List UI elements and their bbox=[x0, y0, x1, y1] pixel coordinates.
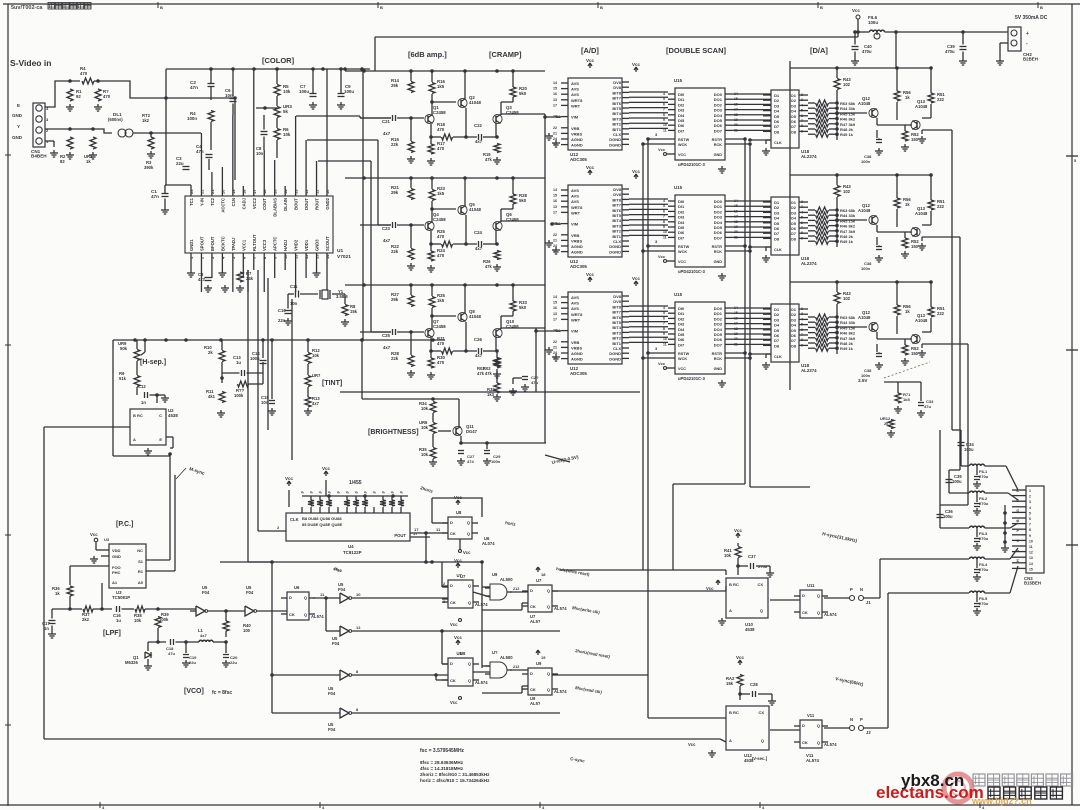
svg-text:18: 18 bbox=[541, 572, 546, 577]
svg-text:10: 10 bbox=[356, 592, 361, 597]
svg-text:WRT8: WRT8 bbox=[571, 312, 583, 317]
svg-text:TC1: TC1 bbox=[189, 197, 194, 206]
svg-text:AGND: AGND bbox=[571, 244, 583, 249]
svg-text:4x7: 4x7 bbox=[383, 238, 391, 243]
svg-text:4538: 4538 bbox=[168, 413, 178, 418]
svg-text:6: 6 bbox=[801, 328, 803, 332]
svg-text:A1048: A1048 bbox=[858, 101, 871, 106]
svg-text:Vcc: Vcc bbox=[463, 550, 471, 555]
svg-text:390k: 390k bbox=[144, 165, 154, 170]
svg-text:Q: Q bbox=[467, 520, 470, 525]
svg-text:E: E bbox=[17, 103, 20, 108]
svg-text:4: 4 bbox=[801, 317, 803, 321]
svg-text:470: 470 bbox=[437, 253, 445, 258]
svg-text:S-Video in: S-Video in bbox=[10, 58, 51, 68]
svg-text:Vcc: Vcc bbox=[322, 466, 331, 471]
svg-text:C2458: C2458 bbox=[433, 110, 446, 115]
svg-text:AVS: AVS bbox=[571, 199, 579, 204]
svg-text:8: 8 bbox=[663, 220, 665, 224]
svg-text:AL074: AL074 bbox=[482, 541, 495, 546]
svg-text:Vcc: Vcc bbox=[658, 254, 666, 259]
svg-text:C10: C10 bbox=[278, 308, 286, 313]
svg-text:C23: C23 bbox=[382, 226, 390, 231]
svg-text:Vcc: Vcc bbox=[688, 742, 696, 747]
svg-text:[CRAMP]: [CRAMP] bbox=[489, 50, 522, 59]
svg-text:5: 5 bbox=[663, 204, 665, 208]
svg-text:RSTR: RSTR bbox=[712, 352, 723, 356]
svg-text:2: 2 bbox=[443, 582, 445, 586]
svg-text:U6: U6 bbox=[294, 585, 300, 590]
svg-text:23: 23 bbox=[189, 189, 194, 194]
svg-text:A: A bbox=[729, 608, 732, 613]
svg-text:5: 5 bbox=[801, 323, 803, 327]
svg-text:Q: Q bbox=[761, 738, 764, 743]
svg-text:11: 11 bbox=[663, 235, 667, 239]
svg-text:WRT8: WRT8 bbox=[571, 98, 583, 103]
svg-text:U1: U1 bbox=[337, 248, 343, 254]
svg-text:22: 22 bbox=[553, 340, 557, 344]
svg-text:15: 15 bbox=[273, 189, 278, 194]
svg-text:41048: 41048 bbox=[469, 100, 482, 105]
svg-text:4: 4 bbox=[801, 210, 803, 214]
svg-text:Q: Q bbox=[468, 678, 471, 683]
svg-text:VIM: VIM bbox=[571, 329, 579, 334]
svg-text:CX: CX bbox=[757, 582, 763, 587]
svg-text:222: 222 bbox=[937, 204, 945, 209]
svg-text:D8: D8 bbox=[774, 236, 780, 241]
svg-text:RSTW: RSTW bbox=[678, 352, 690, 356]
svg-text:C25: C25 bbox=[382, 333, 390, 338]
svg-text:[BRIGHTNESS]: [BRIGHTNESS] bbox=[368, 429, 419, 436]
svg-text:5: 5 bbox=[663, 97, 665, 101]
svg-text:22: 22 bbox=[553, 126, 557, 130]
svg-text:D: D bbox=[530, 588, 533, 593]
svg-text:222: 222 bbox=[937, 311, 945, 316]
svg-text:U4: U4 bbox=[348, 544, 354, 549]
svg-text:17: 17 bbox=[414, 527, 419, 532]
svg-text:WCK: WCK bbox=[678, 143, 687, 147]
svg-text:9: 9 bbox=[801, 236, 803, 240]
svg-text:5V 350mA DC: 5V 350mA DC bbox=[1015, 15, 1048, 21]
svg-text:Vcc: Vcc bbox=[632, 169, 641, 174]
svg-text:S1: S1 bbox=[138, 559, 144, 564]
svg-text:Vcc: Vcc bbox=[90, 532, 98, 537]
svg-text:9: 9 bbox=[1029, 534, 1031, 538]
svg-text:A: A bbox=[729, 738, 732, 743]
svg-text:AL574: AL574 bbox=[806, 758, 820, 763]
svg-text:A: A bbox=[133, 437, 136, 442]
svg-text:82: 82 bbox=[60, 159, 65, 164]
svg-text:Vcc: Vcc bbox=[586, 272, 595, 277]
svg-text:10k: 10k bbox=[421, 425, 429, 430]
svg-text:15: 15 bbox=[1029, 567, 1033, 571]
svg-text:CK: CK bbox=[802, 740, 808, 745]
svg-text:J1: J1 bbox=[866, 600, 871, 605]
svg-text:270u: 270u bbox=[979, 474, 989, 479]
svg-text:10: 10 bbox=[663, 230, 667, 234]
svg-text:10: 10 bbox=[325, 189, 330, 194]
svg-text:1k: 1k bbox=[86, 159, 91, 164]
svg-text:4: 4 bbox=[663, 92, 665, 96]
svg-text:U8: U8 bbox=[456, 510, 462, 515]
svg-text:10: 10 bbox=[663, 123, 667, 127]
svg-text:RSTW: RSTW bbox=[678, 245, 690, 249]
svg-text:85 DU8E QU8E QU8E: 85 DU8E QU8E QU8E bbox=[302, 522, 343, 527]
svg-text:4k1: 4k1 bbox=[208, 394, 216, 399]
svg-text:ROUT: ROUT bbox=[315, 198, 320, 210]
svg-text:VRBS: VRBS bbox=[571, 345, 582, 350]
svg-text:4: 4 bbox=[663, 306, 665, 310]
svg-text:WRT8: WRT8 bbox=[571, 205, 583, 210]
svg-text:R49 1k: R49 1k bbox=[840, 239, 854, 244]
svg-text:41048: 41048 bbox=[469, 314, 482, 319]
svg-text:www.bjdz?.cn: www.bjdz?.cn bbox=[971, 796, 1032, 806]
svg-text:4x7: 4x7 bbox=[198, 277, 206, 282]
svg-text:5: 5 bbox=[801, 216, 803, 220]
svg-text:222: 222 bbox=[937, 97, 945, 102]
svg-text:A1048: A1048 bbox=[915, 104, 928, 109]
svg-text:R49 1k: R49 1k bbox=[840, 346, 854, 351]
svg-text:DO7: DO7 bbox=[714, 342, 723, 347]
svg-text:14: 14 bbox=[553, 188, 557, 192]
svg-text:Vcc: Vcc bbox=[450, 622, 458, 627]
svg-text:BFOUT: BFOUT bbox=[210, 236, 215, 251]
svg-text:5uv/T002-ca: 5uv/T002-ca bbox=[11, 5, 43, 11]
svg-text:2: 2 bbox=[1029, 495, 1031, 499]
svg-text:3.5V: 3.5V bbox=[858, 378, 868, 383]
svg-text:17: 17 bbox=[553, 103, 557, 107]
svg-text:2k: 2k bbox=[884, 421, 889, 426]
svg-text:electans.com: electans.com bbox=[876, 783, 984, 802]
svg-text:GND: GND bbox=[12, 113, 23, 118]
svg-text:1k5: 1k5 bbox=[437, 298, 445, 303]
svg-text:RSTR: RSTR bbox=[712, 138, 723, 142]
svg-text:Q: Q bbox=[304, 595, 307, 600]
svg-text:Vcc: Vcc bbox=[706, 586, 714, 591]
svg-text:10n: 10n bbox=[225, 93, 233, 98]
svg-text:270u: 270u bbox=[979, 567, 989, 572]
svg-text:AVS: AVS bbox=[571, 295, 579, 300]
svg-text:B: B bbox=[600, 5, 603, 10]
svg-text:150: 150 bbox=[911, 244, 919, 249]
svg-text:47u: 47u bbox=[924, 404, 931, 409]
svg-text:DG47: DG47 bbox=[466, 429, 478, 434]
svg-text:AVS: AVS bbox=[571, 87, 579, 92]
svg-text:100n: 100n bbox=[861, 159, 871, 164]
svg-text:U9: U9 bbox=[536, 661, 542, 666]
svg-text:5: 5 bbox=[1029, 511, 1031, 515]
svg-text:AL2374: AL2374 bbox=[801, 261, 817, 266]
svg-text:10k: 10k bbox=[283, 89, 291, 94]
svg-text:R1: R1 bbox=[138, 569, 144, 574]
svg-text:470: 470 bbox=[437, 127, 445, 132]
svg-text:474: 474 bbox=[467, 459, 474, 464]
svg-text:5: 5 bbox=[801, 109, 803, 113]
svg-text:Vcc: Vcc bbox=[285, 476, 294, 481]
svg-text:10k: 10k bbox=[312, 353, 320, 358]
svg-text:15k: 15k bbox=[350, 309, 358, 314]
svg-text:8: 8 bbox=[663, 327, 665, 331]
svg-text:GND3: GND3 bbox=[315, 239, 320, 251]
svg-text:DO7: DO7 bbox=[714, 128, 723, 133]
svg-text:16: 16 bbox=[553, 92, 557, 96]
svg-text:AL574: AL574 bbox=[554, 606, 567, 611]
svg-text:7: 7 bbox=[801, 226, 803, 230]
svg-text:(600ns): (600ns) bbox=[108, 117, 123, 122]
svg-text:U15: U15 bbox=[674, 78, 683, 83]
svg-text:1k: 1k bbox=[905, 309, 910, 314]
svg-text:10n: 10n bbox=[256, 151, 264, 156]
svg-text:8: 8 bbox=[663, 113, 665, 117]
svg-text:Q: Q bbox=[547, 671, 550, 676]
svg-text:A1048: A1048 bbox=[915, 211, 928, 216]
svg-text:RCK: RCK bbox=[714, 143, 722, 147]
svg-text:100k: 100k bbox=[234, 393, 244, 398]
svg-text:O: O bbox=[1016, 499, 1020, 502]
svg-text:4: 4 bbox=[1029, 506, 1031, 510]
svg-text:14: 14 bbox=[325, 254, 330, 259]
svg-text:Vcc: Vcc bbox=[632, 276, 641, 281]
svg-text:TPADJ: TPADJ bbox=[231, 237, 236, 251]
svg-text:11: 11 bbox=[1029, 545, 1033, 549]
svg-text:100u: 100u bbox=[952, 479, 962, 484]
svg-text:B8 DU88 QU88 GU88: B8 DU88 QU88 GU88 bbox=[302, 516, 342, 521]
svg-text:O8: O8 bbox=[791, 236, 797, 241]
svg-text:10: 10 bbox=[1029, 539, 1033, 543]
svg-text:4: 4 bbox=[663, 199, 665, 203]
svg-text:6: 6 bbox=[801, 114, 803, 118]
svg-text:A1048: A1048 bbox=[915, 318, 928, 323]
svg-text:4x7: 4x7 bbox=[200, 633, 207, 638]
svg-text:B4BEH: B4BEH bbox=[31, 154, 47, 159]
svg-text:A1048: A1048 bbox=[858, 208, 871, 213]
svg-text:50k: 50k bbox=[120, 346, 128, 351]
svg-text:U15: U15 bbox=[674, 185, 683, 190]
svg-text:24k: 24k bbox=[246, 276, 254, 281]
svg-text:CK: CK bbox=[450, 600, 456, 605]
svg-text:TC2: TC2 bbox=[210, 197, 215, 206]
svg-text:C26: C26 bbox=[474, 337, 482, 342]
svg-text:5k0: 5k0 bbox=[519, 198, 527, 203]
svg-text:Q: Q bbox=[304, 612, 307, 617]
svg-text:B: B bbox=[820, 5, 823, 10]
svg-text:VRBS: VRBS bbox=[571, 238, 582, 243]
svg-text:13: 13 bbox=[315, 254, 320, 259]
svg-text:VDD1: VDD1 bbox=[304, 239, 309, 251]
svg-text:Q: Q bbox=[467, 531, 470, 536]
svg-text:10k: 10k bbox=[283, 132, 291, 137]
svg-text:AVS: AVS bbox=[571, 194, 579, 199]
svg-text:150: 150 bbox=[911, 351, 919, 356]
svg-text:VIM: VIM bbox=[571, 222, 579, 227]
svg-text:10k: 10k bbox=[724, 553, 732, 558]
svg-text:9: 9 bbox=[663, 118, 665, 122]
svg-text:AVS: AVS bbox=[571, 188, 579, 193]
svg-text:21: 21 bbox=[553, 345, 557, 349]
svg-text:VRB: VRB bbox=[571, 126, 580, 131]
svg-text:10k: 10k bbox=[421, 406, 429, 411]
svg-text:29k: 29k bbox=[391, 297, 399, 302]
svg-text:212: 212 bbox=[513, 587, 519, 591]
svg-text:WRT: WRT bbox=[571, 210, 581, 215]
svg-text:1k: 1k bbox=[905, 202, 910, 207]
svg-text:D: D bbox=[450, 661, 453, 666]
svg-text:14: 14 bbox=[553, 81, 557, 85]
svg-text:1k5: 1k5 bbox=[903, 397, 910, 402]
svg-text:16: 16 bbox=[262, 189, 267, 194]
svg-text:12: 12 bbox=[1029, 551, 1033, 555]
svg-text:F04: F04 bbox=[338, 587, 346, 592]
svg-text:47n: 47n bbox=[196, 149, 204, 154]
svg-text:P: P bbox=[860, 717, 863, 722]
svg-text:1k5: 1k5 bbox=[437, 84, 445, 89]
svg-text:2k2: 2k2 bbox=[82, 617, 90, 622]
svg-text:Q: Q bbox=[468, 600, 471, 605]
svg-text:5k: 5k bbox=[283, 109, 288, 114]
svg-text:22u: 22u bbox=[230, 660, 237, 665]
svg-text:17: 17 bbox=[553, 317, 557, 321]
svg-text:18: 18 bbox=[241, 189, 246, 194]
svg-text:+: + bbox=[1026, 31, 1029, 37]
svg-text:17: 17 bbox=[553, 210, 557, 214]
svg-text:U?: U? bbox=[492, 650, 498, 655]
svg-text:7: 7 bbox=[1029, 523, 1031, 527]
svg-text:47n: 47n bbox=[151, 194, 159, 199]
svg-text:Vcc: Vcc bbox=[736, 655, 745, 660]
svg-text:AGND: AGND bbox=[571, 357, 583, 362]
svg-text:Q: Q bbox=[547, 604, 550, 609]
svg-text:AL574: AL574 bbox=[824, 612, 837, 617]
svg-text:C: C bbox=[159, 413, 162, 418]
svg-text:B: B bbox=[380, 5, 383, 10]
svg-text:C12: C12 bbox=[138, 384, 146, 389]
svg-text:[A/D]: [A/D] bbox=[581, 46, 599, 55]
svg-text:A1: A1 bbox=[112, 580, 118, 585]
svg-text:1u: 1u bbox=[236, 360, 241, 365]
svg-text:13: 13 bbox=[553, 98, 557, 102]
svg-text:VRB: VRB bbox=[571, 340, 580, 345]
svg-text:SPOUT: SPOUT bbox=[199, 236, 204, 251]
svg-text:22k: 22k bbox=[391, 142, 399, 147]
svg-text:4x7: 4x7 bbox=[312, 401, 320, 406]
svg-text:2horiz = 8fsc/910 = 31.46853kH: 2horiz = 8fsc/910 = 31.46853kHz bbox=[420, 772, 490, 777]
svg-text:GND: GND bbox=[714, 153, 723, 157]
svg-text:10n: 10n bbox=[290, 301, 298, 306]
svg-text:Vcc: Vcc bbox=[658, 361, 666, 366]
svg-text:CADJ: CADJ bbox=[241, 197, 246, 209]
svg-text:4x7: 4x7 bbox=[383, 345, 391, 350]
svg-text:VCC1: VCC1 bbox=[241, 239, 246, 251]
svg-text:D8: D8 bbox=[774, 129, 780, 134]
svg-text:12: 12 bbox=[356, 625, 361, 630]
svg-text:CLK: CLK bbox=[774, 355, 782, 359]
svg-text:U11: U11 bbox=[807, 583, 815, 588]
svg-text:13: 13 bbox=[553, 205, 557, 209]
svg-text:17: 17 bbox=[252, 189, 257, 194]
svg-text:GND: GND bbox=[714, 260, 723, 264]
svg-text:7: 7 bbox=[663, 215, 665, 219]
svg-text:41048: 41048 bbox=[469, 207, 482, 212]
svg-text:8: 8 bbox=[801, 338, 803, 342]
svg-text:1k3: 1k3 bbox=[487, 392, 495, 397]
svg-text:VCC2: VCC2 bbox=[252, 197, 257, 209]
svg-text:13: 13 bbox=[294, 189, 299, 194]
svg-text:J2: J2 bbox=[866, 730, 871, 735]
svg-text:470: 470 bbox=[437, 234, 445, 239]
svg-text:Q: Q bbox=[547, 687, 550, 692]
svg-text:22k: 22k bbox=[391, 249, 399, 254]
svg-text:VCC: VCC bbox=[678, 260, 686, 264]
svg-text:10k: 10k bbox=[421, 452, 429, 457]
svg-text:horiz = 4fsc/910 = 15.734264kH: horiz = 4fsc/910 = 15.734264kHz bbox=[420, 778, 490, 783]
svg-text:U7: U7 bbox=[457, 573, 463, 578]
svg-text:[D/A]: [D/A] bbox=[810, 46, 828, 55]
svg-text:5k0: 5k0 bbox=[519, 305, 527, 310]
svg-text:29k: 29k bbox=[391, 190, 399, 195]
svg-text:B: B bbox=[1016, 519, 1020, 522]
svg-text:5: 5 bbox=[663, 311, 665, 315]
svg-text:AL5?: AL5? bbox=[530, 701, 541, 706]
svg-text:GND: GND bbox=[714, 367, 723, 371]
svg-text:Vcc: Vcc bbox=[454, 635, 463, 640]
svg-text:Q: Q bbox=[817, 723, 820, 728]
svg-text:C21: C21 bbox=[382, 119, 390, 124]
svg-text:51k: 51k bbox=[119, 376, 127, 381]
svg-text:9: 9 bbox=[801, 129, 803, 133]
svg-text:Vcc: Vcc bbox=[734, 528, 743, 533]
svg-text:4fsc = 14.31818MHz: 4fsc = 14.31818MHz bbox=[420, 766, 464, 771]
svg-text:IV-sec.]: IV-sec.] bbox=[752, 756, 768, 761]
svg-text:[DOUBLE SCAN]: [DOUBLE SCAN] bbox=[666, 46, 726, 55]
svg-text:AL500: AL500 bbox=[500, 655, 513, 660]
svg-text:C11: C11 bbox=[290, 284, 298, 289]
svg-text:U15: U15 bbox=[674, 292, 683, 297]
svg-text:12: 12 bbox=[304, 189, 309, 194]
svg-text:3: 3 bbox=[801, 205, 803, 209]
svg-text:22k: 22k bbox=[391, 356, 399, 361]
svg-text:1k: 1k bbox=[55, 591, 60, 596]
svg-text:uPD42101C-3: uPD42101C-3 bbox=[678, 269, 705, 274]
svg-text:Vcc: Vcc bbox=[658, 147, 666, 152]
svg-text:AL500: AL500 bbox=[500, 577, 513, 582]
svg-text:CLK: CLK bbox=[774, 248, 782, 252]
svg-text:[VCO]: [VCO] bbox=[184, 688, 204, 695]
svg-text:RCK: RCK bbox=[714, 357, 722, 361]
svg-text:C37: C37 bbox=[748, 554, 756, 559]
svg-text:19: 19 bbox=[231, 189, 236, 194]
svg-text:fsc = 3.579545MHz: fsc = 3.579545MHz bbox=[420, 748, 465, 754]
svg-text:B15BEH: B15BEH bbox=[1024, 580, 1041, 585]
svg-text:10k: 10k bbox=[134, 618, 142, 623]
svg-text:AVS: AVS bbox=[571, 301, 579, 306]
svg-text:VIM: VIM bbox=[571, 115, 579, 120]
svg-text:21: 21 bbox=[553, 238, 557, 242]
svg-text:A0: A0 bbox=[138, 580, 144, 585]
svg-text:20: 20 bbox=[220, 189, 225, 194]
svg-text:11: 11 bbox=[663, 342, 667, 346]
svg-text:7: 7 bbox=[801, 333, 803, 337]
svg-text:D: D bbox=[450, 520, 453, 525]
svg-text:13: 13 bbox=[1029, 556, 1033, 560]
svg-text:RCK: RCK bbox=[714, 250, 722, 254]
svg-text:N: N bbox=[850, 717, 853, 722]
svg-text:RLTOUT: RLTOUT bbox=[252, 234, 257, 251]
svg-text:7: 7 bbox=[663, 108, 665, 112]
svg-text:PHC: PHC bbox=[112, 570, 121, 575]
svg-text:270u: 270u bbox=[979, 501, 989, 506]
svg-text:C28: C28 bbox=[750, 682, 758, 687]
svg-text:8: 8 bbox=[801, 231, 803, 235]
